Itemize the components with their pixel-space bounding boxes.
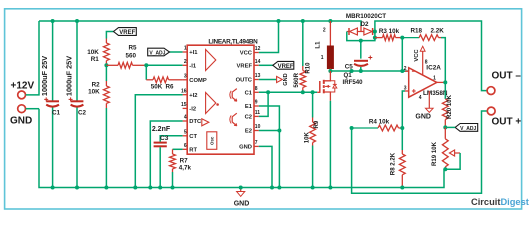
wire R4 node to pin3 <box>402 91 405 128</box>
svg-text:4: 4 <box>184 115 187 121</box>
svg-text:C2: C2 <box>245 115 252 121</box>
svg-text:1: 1 <box>184 46 187 52</box>
svg-text:+12V: +12V <box>11 81 35 92</box>
svg-text:14: 14 <box>255 59 261 65</box>
svg-text:12: 12 <box>255 46 261 52</box>
svg-text:COMP: COMP <box>189 78 207 84</box>
node R10 bottom on gate net <box>301 90 305 94</box>
IC U1 TL494BN PWM controller <box>181 39 261 155</box>
svg-text:GND: GND <box>234 200 250 207</box>
svg-text:R2: R2 <box>92 81 101 88</box>
net flag V_ADJ (to pin1) <box>148 48 183 56</box>
capacitor C1 1000uF 25V <box>40 21 61 188</box>
svg-text:C3: C3 <box>160 135 169 142</box>
wire from GND terminal <box>26 108 39 110</box>
svg-text:RT: RT <box>189 148 197 154</box>
junction dots top rail <box>51 19 55 23</box>
wire D2 anode loop <box>347 32 375 41</box>
power flag VREF (left) <box>106 28 136 39</box>
svg-text:DTC: DTC <box>189 119 202 125</box>
svg-text:R4 10k: R4 10k <box>369 118 390 125</box>
svg-text:6: 6 <box>184 143 187 149</box>
node R4/R8/pin3 junction <box>400 126 404 130</box>
svg-text:IRF540: IRF540 <box>343 79 364 86</box>
potentiometer R19 10K <box>431 127 460 169</box>
wire pin2 stub <box>402 70 405 72</box>
wire pin11 C2 tie <box>259 92 268 116</box>
inductor L1 <box>315 19 334 71</box>
node R3/R18 junction <box>400 36 404 40</box>
terminal +12V input <box>18 91 26 99</box>
svg-text:-I2: -I2 <box>189 107 196 113</box>
svg-text:+I2: +I2 <box>189 93 197 99</box>
svg-text:1000uF 25V: 1000uF 25V <box>64 56 73 96</box>
svg-text:R10: R10 <box>304 62 311 74</box>
svg-text:V_ADJ: V_ADJ <box>460 126 476 132</box>
resistor R5 560 <box>106 45 146 69</box>
svg-text:1000uF 25V: 1000uF 25V <box>40 56 49 96</box>
resistor R9 10K <box>304 90 320 187</box>
wire OUT+ under rail <box>352 111 488 193</box>
svg-text:R19 10K: R19 10K <box>431 141 438 166</box>
svg-text:10: 10 <box>255 124 261 130</box>
svg-text:-I1: -I1 <box>189 64 197 70</box>
svg-text:7: 7 <box>255 140 258 146</box>
svg-text:560R: 560R <box>293 72 300 87</box>
svg-text:4: 4 <box>419 95 422 101</box>
svg-text:11: 11 <box>255 110 261 116</box>
svg-text:LM358N: LM358N <box>423 90 448 97</box>
svg-text:15: 15 <box>181 102 187 108</box>
resistor R3 10k <box>375 28 402 41</box>
svg-text:9: 9 <box>255 100 258 106</box>
ground symbol bottom <box>234 188 250 208</box>
wire +12V top rail <box>39 21 361 26</box>
svg-text:16: 16 <box>181 88 187 94</box>
node pin8/pin11 tie <box>266 90 270 94</box>
resistor R6 50K <box>146 65 182 90</box>
capacitor C2 1000uF 25V <box>64 21 86 188</box>
svg-text:CircuitDigest: CircuitDigest <box>471 197 529 207</box>
svg-text:VREF: VREF <box>119 30 135 36</box>
svg-text:2.2K: 2.2K <box>431 28 445 35</box>
svg-text:1: 1 <box>321 55 324 61</box>
resistor R2 10K <box>88 65 109 187</box>
svg-text:CT: CT <box>189 134 197 140</box>
node R1/R2/R5 junction <box>104 63 108 67</box>
terminal OUT- <box>487 87 495 95</box>
svg-text:OUT +: OUT + <box>492 117 522 128</box>
svg-text:8: 8 <box>425 60 428 66</box>
node R5/R6/pin2 junction <box>144 63 148 67</box>
svg-text:GND: GND <box>239 145 252 151</box>
wire switch node <box>330 70 407 72</box>
capacitor C5 <box>345 41 373 71</box>
terminal GND input <box>18 105 26 113</box>
wire R19 wiper loop <box>445 153 460 169</box>
wire pin7 GND <box>259 146 272 187</box>
wire from +12V terminal <box>26 21 39 95</box>
resistor R18 2.2K <box>402 28 445 83</box>
svg-text:1: 1 <box>433 75 436 81</box>
svg-text:+I1: +I1 <box>189 50 198 56</box>
svg-text:R18: R18 <box>410 28 422 35</box>
svg-text:E2: E2 <box>245 129 252 135</box>
wire pin4 DTC to GND rail <box>150 121 182 188</box>
svg-text:VREF: VREF <box>237 64 253 70</box>
svg-text:C2: C2 <box>78 109 87 116</box>
resistor R4 10k <box>352 118 403 131</box>
svg-text:E1: E1 <box>245 104 253 110</box>
svg-text:3: 3 <box>184 74 187 80</box>
svg-text:C1: C1 <box>245 91 253 97</box>
wire R3/R18 node down to pin2 <box>401 38 403 71</box>
svg-text:R9: R9 <box>313 120 320 128</box>
net flag V_ADJ (right) <box>445 124 477 132</box>
node op-amp output <box>443 80 447 84</box>
svg-text:OUTC: OUTC <box>236 78 253 84</box>
svg-text:VCC: VCC <box>414 49 420 62</box>
svg-text:560: 560 <box>125 52 136 59</box>
svg-text:R8 2.2K: R8 2.2K <box>390 152 397 175</box>
wire pin2 of U1 <box>146 64 182 66</box>
svg-text:2.2nF: 2.2nF <box>152 126 171 133</box>
svg-text:R7: R7 <box>180 157 189 164</box>
op-amp IC2A LM358N <box>404 46 448 120</box>
svg-text:Osc: Osc <box>210 136 215 145</box>
svg-text:GND: GND <box>415 114 431 121</box>
svg-text:VCC: VCC <box>240 51 253 57</box>
svg-text:OUT –: OUT – <box>492 71 522 82</box>
svg-text:5: 5 <box>184 130 187 136</box>
svg-text:L1: L1 <box>315 41 322 49</box>
node R20/R19/V_ADJ junction <box>443 125 447 129</box>
junction dots bottom rail <box>51 186 55 190</box>
svg-text:C1: C1 <box>52 109 61 116</box>
svg-text:4,7k: 4,7k <box>179 165 192 172</box>
wire pin12 VCC to +12V rail <box>259 21 279 53</box>
wire GND bottom rail <box>39 109 444 188</box>
svg-text:R3 10k: R3 10k <box>379 28 400 35</box>
wire right top rail (D2 cathode to OUT-) <box>375 21 487 91</box>
svg-text:VREF: VREF <box>278 64 294 70</box>
svg-text:LINEAR,TL494BN: LINEAR,TL494BN <box>208 39 258 46</box>
svg-text:R5: R5 <box>128 45 137 52</box>
svg-text:GND: GND <box>10 116 32 127</box>
svg-text:D2: D2 <box>360 21 369 28</box>
svg-text:10K: 10K <box>304 132 311 144</box>
svg-text:MBR10020CT: MBR10020CT <box>346 13 386 20</box>
svg-text:R1: R1 <box>91 56 100 63</box>
power flag VREF (pin14) <box>259 61 294 70</box>
svg-text:R6: R6 <box>166 84 175 91</box>
svg-text:8: 8 <box>255 86 258 92</box>
resistor R10 560R <box>293 21 312 92</box>
svg-text:R20 10K: R20 10K <box>446 94 453 119</box>
svg-text:2: 2 <box>323 28 326 34</box>
wire pin8 C1 to Q1 gate <box>259 91 317 93</box>
diode D2 MBR10020CT <box>346 13 386 35</box>
terminal OUT+ <box>487 107 495 115</box>
svg-text:2: 2 <box>184 59 187 65</box>
resistor R8 2.2K <box>390 128 406 188</box>
node R4 left column <box>350 69 354 73</box>
wire pin16 +I2 to GND rail <box>135 95 182 188</box>
svg-text:10K: 10K <box>87 49 99 56</box>
svg-text:13: 13 <box>255 73 261 79</box>
resistor R7 4.7k <box>170 149 192 187</box>
wire pin9 E1 / pin10 E2 tie <box>259 106 280 131</box>
resistor R1 10K <box>87 39 109 66</box>
svg-text:10K: 10K <box>88 88 100 95</box>
svg-text:50K: 50K <box>151 84 163 91</box>
svg-text:V_ADJ: V_ADJ <box>149 50 165 56</box>
transistor Q1 IRF540 <box>317 71 363 188</box>
resistor R20 10K <box>442 82 453 127</box>
svg-text:GND: GND <box>283 73 289 85</box>
svg-text:IC2A: IC2A <box>426 65 441 72</box>
capacitor C3 2.2nF <box>152 126 183 188</box>
ground symbol at pin13 OUTC <box>259 73 289 85</box>
